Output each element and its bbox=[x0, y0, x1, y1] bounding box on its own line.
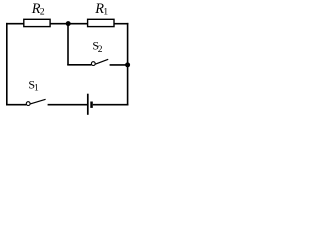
wire bottom-left segment bbox=[6, 104, 26, 106]
resistor R2 bbox=[24, 19, 50, 26]
wire S1 to battery bbox=[48, 104, 88, 106]
wire R2 to R1 bbox=[50, 23, 88, 25]
svg-text:1: 1 bbox=[34, 84, 39, 94]
battery short plate bbox=[90, 102, 93, 108]
wire branch horizontal to S2 bbox=[67, 64, 91, 66]
wire branch vertical from node A bbox=[67, 24, 69, 65]
label S1 bbox=[28, 78, 39, 94]
label R2 bbox=[31, 1, 45, 18]
label S2 bbox=[92, 39, 102, 56]
wire R1 to top-right corner bbox=[114, 23, 128, 25]
svg-text:1: 1 bbox=[103, 7, 108, 18]
resistor R1 bbox=[88, 19, 114, 26]
wire right rail bbox=[127, 23, 129, 106]
wire S2 to node B bbox=[110, 64, 128, 66]
node junction dot A bbox=[66, 21, 71, 26]
switch S2 blade bbox=[95, 59, 108, 64]
switch S1 blade bbox=[30, 99, 45, 104]
svg-text:2: 2 bbox=[40, 7, 45, 18]
svg-text:2: 2 bbox=[98, 45, 103, 55]
wire top-left segment bbox=[6, 23, 24, 25]
wire battery to bottom-right corner bbox=[93, 104, 129, 106]
switch S2 pivot circle bbox=[91, 62, 95, 66]
label R1 bbox=[94, 1, 108, 18]
battery long plate bbox=[87, 94, 89, 115]
node junction dot B bbox=[125, 62, 130, 67]
wire left rail bbox=[6, 23, 8, 106]
switch S1 pivot circle bbox=[26, 102, 30, 106]
